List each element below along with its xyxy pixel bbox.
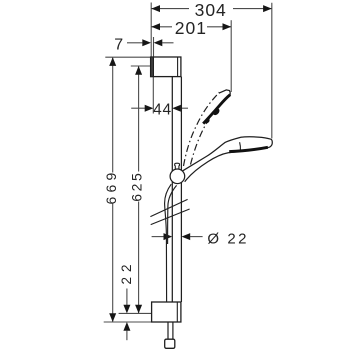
shower hose hanging from holder [165, 184, 172, 302]
svg-text:669: 669 [103, 169, 119, 205]
dashed alternate position handshower outer edge [184, 92, 220, 166]
dimension 44 [131, 101, 188, 118]
wire extension line x=271.8 for dim 304 [271, 3, 273, 139]
dimension 669 vertical [103, 57, 119, 322]
handshower spray face dark edge [229, 147, 268, 151]
wire extension line x=153.3 below bracket for dim 44 [152, 77, 154, 114]
svg-text:Ø: Ø [207, 231, 219, 248]
wire extension line y=66 top for 625 [131, 65, 151, 67]
bottom bracket clamp inner line [176, 302, 178, 322]
wire extension line wall plate front x=153.5 [153, 37, 155, 57]
svg-text:22: 22 [119, 259, 134, 284]
dimension 201 [151, 18, 231, 38]
wire extension line x=231.2 for dim 201 [230, 20, 232, 92]
dimension diameter 22 [152, 231, 249, 248]
dimension 22 vertical bottom [119, 259, 134, 340]
wall bar rail tube [171, 77, 173, 302]
svg-text:201: 201 [175, 18, 207, 38]
dashed handshower spray face thick edge [203, 95, 230, 124]
dimension 7 [114, 36, 173, 53]
break marks across rail and hose [150, 199, 187, 216]
top bracket wall plate dark strip [151, 57, 154, 77]
svg-text:625: 625 [128, 171, 144, 202]
holder on rail [170, 169, 185, 184]
dimension 625 vertical [128, 66, 144, 313]
wire extension line y=313.4 bottom for 625 [119, 312, 152, 314]
wire extension line wall ref x=151.2 [150, 3, 152, 58]
rail end cap [165, 339, 175, 348]
dimension 304 [151, 0, 271, 20]
wire extension line y=322 bottom for 669 [104, 321, 152, 323]
top wall bracket [151, 57, 181, 77]
svg-text:44: 44 [153, 101, 172, 118]
svg-text:7: 7 [114, 36, 123, 53]
svg-text:22: 22 [227, 231, 249, 248]
dashed handshower head tip [219, 90, 231, 95]
wire extension line y=57.2 top for 669 [105, 56, 150, 58]
dashed alternate position handshower inner edge [191, 115, 212, 164]
top bracket clamp inner line [177, 57, 179, 77]
handshower head/handle joint line [239, 142, 242, 150]
handshower body (handle + head) [183, 137, 273, 182]
rail stub below bottom bracket [167, 322, 169, 339]
holder knob [175, 163, 180, 169]
bottom wall bracket [152, 302, 181, 322]
